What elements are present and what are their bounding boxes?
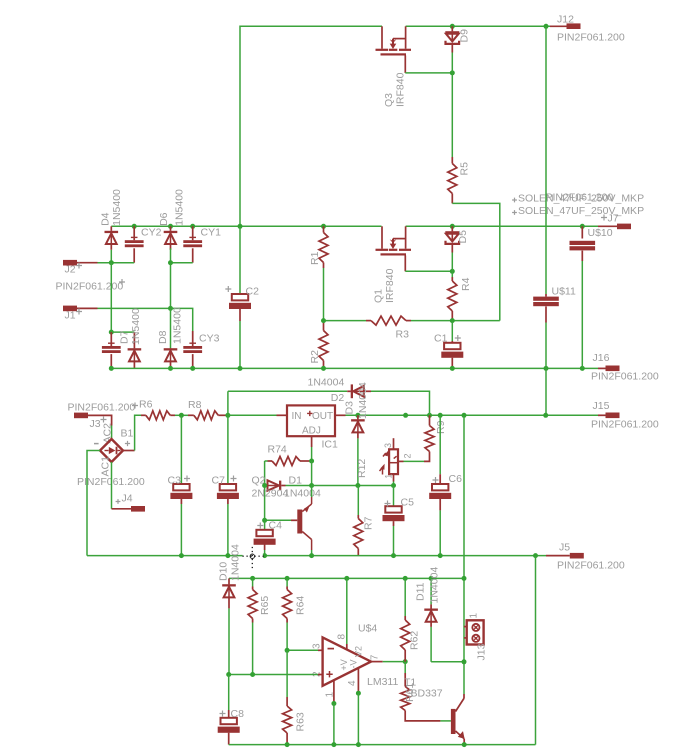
svg-text:J1: J1	[65, 310, 76, 322]
junction J2 branch / D7	[109, 330, 114, 335]
wire rail y=578.4	[229, 577, 464, 579]
svg-text:1N4004: 1N4004	[230, 544, 242, 581]
svg-text:7: 7	[370, 654, 381, 660]
wire x464 vertical	[463, 415, 465, 694]
svg-text:J12: J12	[557, 14, 574, 26]
resistor R6	[141, 414, 146, 416]
junction R8/C7/IC1-IN	[225, 413, 230, 418]
diode D10 1N4004	[228, 556, 230, 579]
wire to D7 anode	[111, 331, 134, 333]
wire J16 rail to J15 rail	[545, 368, 547, 415]
op-amp U$4 LM311	[323, 637, 371, 685]
wire J12 node down to U$11	[545, 26, 547, 294]
svg-text:R2: R2	[309, 350, 321, 364]
connector J5 pad	[570, 553, 584, 559]
junction rail-555 x440.2	[438, 553, 443, 558]
diode D3 1N4004	[357, 415, 359, 419]
capacitor U$10 SOLEN	[581, 226, 583, 238]
junction rail-555 x264.6	[262, 553, 267, 558]
capacitor C7	[227, 415, 229, 483]
junction rail-226 x192.7	[190, 224, 195, 229]
capacitor C6	[439, 415, 441, 474]
wire rail AC top right	[406, 225, 604, 227]
pin stub J7	[598, 225, 617, 227]
junction rail-226 x170.5	[168, 224, 173, 229]
wire D6-CY1 bottom tie	[170, 248, 172, 308]
voltage regulator IC1	[287, 405, 335, 436]
svg-text:PIN2F061.200: PIN2F061.200	[68, 402, 136, 414]
pin stub J15	[598, 414, 606, 416]
svg-text:PIN2F061.200: PIN2F061.200	[557, 32, 625, 44]
capacitor CY1	[192, 226, 194, 240]
svg-text:D10: D10	[218, 562, 230, 581]
transistor Q3 IRF840	[376, 26, 412, 73]
diode D7 1N5400	[133, 332, 135, 348]
junction pin7 / R62 / R61	[403, 659, 408, 664]
svg-text:1: 1	[325, 692, 336, 698]
junction top rail / D9	[450, 24, 455, 29]
junction rail-226 x323.5	[321, 224, 326, 229]
junction D6 / CY1	[168, 260, 173, 265]
svg-text:SOLEN_47UF_250V_MKP: SOLEN_47UF_250V_MKP	[518, 205, 644, 217]
junction R1/R2/mid-rail	[321, 318, 326, 323]
svg-text:OUT: OUT	[312, 411, 333, 422]
junction rail-368 x111.3	[109, 366, 114, 371]
capacitor C3	[180, 415, 182, 483]
junction rail-555 x311.6	[309, 553, 314, 558]
wire Q1 source to node	[405, 270, 452, 272]
wire J2 node down	[110, 263, 112, 332]
connector J7 pad	[617, 224, 631, 230]
junction rail-415 x545.7	[543, 413, 548, 418]
svg-text:J4: J4	[122, 493, 133, 505]
diode D4 1N5400	[110, 226, 112, 231]
svg-text:AC1: AC1	[100, 456, 112, 477]
diode D9 (zener)	[451, 26, 453, 31]
svg-text:1N5400: 1N5400	[173, 189, 185, 226]
svg-text:Q1: Q1	[373, 289, 385, 303]
svg-text:V2: V2	[354, 646, 364, 657]
svg-text:3: 3	[312, 643, 323, 649]
capacitor (x=111 bottom)	[110, 332, 112, 346]
svg-text:+V: +V	[339, 659, 349, 670]
svg-text:1: 1	[469, 613, 480, 619]
junction R65 / pin2 net	[250, 672, 255, 677]
junction rail-226 x134.2	[132, 224, 137, 229]
junction rail-744 x287.1	[285, 742, 290, 747]
svg-text:BD337: BD337	[411, 688, 443, 700]
svg-text:LM311: LM311	[367, 676, 398, 688]
connector J12 pad	[567, 23, 581, 29]
junction pin1 wire	[331, 701, 336, 706]
svg-text:C6: C6	[449, 473, 463, 485]
junction Q2 col / D1	[262, 483, 267, 488]
svg-text:ADJ: ADJ	[302, 426, 321, 437]
svg-text:D3: D3	[344, 401, 356, 415]
junction rail-368 x192.7	[190, 366, 195, 371]
svg-text:R12: R12	[356, 459, 368, 478]
svg-text:U$10: U$10	[588, 227, 613, 239]
junction rail-226 x452.3	[450, 224, 455, 229]
svg-text:C7: C7	[212, 475, 226, 487]
svg-text:R8: R8	[188, 399, 202, 411]
value labels SOLEN_47UF_250V_MKP (U$11/U$10) + PIN2F061.200 (J7) overlapping	[512, 198, 517, 203]
resistor R63	[286, 650, 288, 697]
svg-text:D5: D5	[457, 230, 469, 244]
svg-text:J15: J15	[593, 400, 610, 412]
svg-text:D2: D2	[331, 392, 345, 404]
wire Q3 source to node	[405, 72, 452, 74]
junction rail-555 x535.5	[533, 553, 538, 558]
junction rail-555 x393.5	[391, 553, 396, 558]
svg-text:R65: R65	[259, 596, 271, 615]
junction rail-555 x181.4	[179, 553, 184, 558]
svg-text:U$4: U$4	[358, 623, 377, 635]
junction top rail / J12 branch	[544, 24, 549, 29]
connector J16 pad	[606, 366, 620, 372]
pin stub IC1 IN	[277, 414, 288, 416]
resistor R5	[451, 73, 453, 157]
svg-text:CY3: CY3	[199, 333, 220, 345]
junction rail-578 x287.1	[285, 576, 290, 581]
svg-text:1N4004: 1N4004	[429, 567, 441, 604]
connector J15 pad	[606, 413, 620, 419]
svg-text:1N4004: 1N4004	[284, 488, 321, 500]
svg-text:IN: IN	[292, 411, 302, 422]
junction rail-368 x240	[238, 366, 243, 371]
svg-text:D4: D4	[99, 212, 111, 226]
svg-text:3: 3	[383, 443, 393, 448]
resistor R9	[429, 415, 431, 425]
resistor R3	[366, 320, 371, 322]
wire top rail right segment	[406, 25, 550, 27]
svg-text:-V: -V	[349, 660, 359, 669]
transistor T1 BD337	[451, 698, 465, 745]
svg-text:D6: D6	[158, 212, 170, 226]
wire rail to C2	[239, 226, 241, 294]
junction R4/C1/mid-rail	[450, 318, 455, 323]
bypass branch: C7 riser + diode D2 1N4004	[227, 391, 229, 415]
junction rail-744 x464.2	[462, 742, 467, 747]
svg-text:J5: J5	[559, 542, 570, 554]
transistor Q1 IRF840	[376, 226, 412, 271]
wire op-amp pin7 output	[371, 661, 383, 663]
svg-text:C8: C8	[231, 708, 245, 720]
junction rail-578 x405.2	[403, 576, 408, 581]
capacitor CY3	[192, 331, 194, 346]
svg-text:8: 8	[336, 634, 347, 640]
svg-text:D9: D9	[459, 29, 471, 43]
svg-text:J3: J3	[90, 418, 101, 430]
trimmer R13	[389, 449, 398, 474]
capacitor C1	[451, 321, 453, 341]
connector J4 pad	[131, 506, 145, 512]
junction J2 / D4	[109, 260, 114, 265]
junction rail-368 x323.5	[321, 366, 326, 371]
svg-text:IC1: IC1	[322, 439, 339, 451]
svg-text:U$11: U$11	[552, 286, 576, 298]
resistor R4	[451, 271, 453, 277]
svg-text:R64: R64	[295, 596, 307, 615]
wire J1 row to CY3	[171, 308, 193, 331]
svg-text:IRF840: IRF840	[384, 268, 396, 303]
svg-text:2: 2	[402, 453, 412, 458]
polarity + J7	[601, 215, 607, 221]
pin stub J12	[550, 25, 567, 27]
svg-text:J2: J2	[65, 264, 76, 276]
svg-text:R7: R7	[363, 516, 375, 530]
capacitor C5	[393, 486, 395, 506]
resistor R74	[265, 460, 268, 462]
svg-text:PIN2F061.200: PIN2F061.200	[591, 419, 659, 431]
junction D1 / Q2 emitter / net	[309, 483, 314, 488]
junction D11 / x464 vertical	[462, 659, 467, 664]
pin stub IC1 OUT	[335, 414, 346, 416]
svg-text:PIN2F061.200: PIN2F061.200	[591, 371, 659, 383]
resistor R65	[252, 578, 254, 586]
svg-text:C2: C2	[246, 286, 260, 298]
junction rail-368 x452.3	[450, 366, 455, 371]
junction rail-555 x227.9	[225, 553, 230, 558]
svg-text:B1: B1	[121, 428, 134, 440]
junction ADJ / R74	[309, 459, 314, 464]
diode D8 1N5400	[170, 308, 172, 348]
svg-text:C5: C5	[401, 497, 415, 509]
svg-text:CY2: CY2	[141, 227, 162, 239]
svg-text:R3: R3	[396, 329, 410, 341]
resistor R61	[404, 662, 406, 673]
svg-text:CY1: CY1	[201, 227, 222, 239]
junction D5 / R4 / Q1	[450, 269, 455, 274]
diode D11 1N4004	[430, 578, 432, 604]
pin stub J13-1	[464, 626, 467, 628]
svg-text:1N5400: 1N5400	[171, 307, 183, 344]
svg-text:1N5400: 1N5400	[130, 308, 142, 345]
junction rail-744 x358.4	[356, 742, 361, 747]
dotted origin crosshair	[243, 554, 264, 557]
junction rail-368 x546	[544, 366, 549, 371]
wire Q2 column	[264, 461, 266, 520]
connector J2	[63, 260, 77, 266]
junction rail-744 x333.9	[331, 742, 336, 747]
resistor R2	[323, 321, 325, 331]
svg-text:R74: R74	[268, 444, 287, 456]
junction rail-368 x170.5	[168, 366, 173, 371]
svg-text:R4: R4	[460, 277, 472, 291]
diode D5 (zener)	[451, 226, 453, 231]
junction rail-415 x405.6	[403, 413, 408, 418]
svg-text:2N2904: 2N2904	[252, 488, 289, 500]
junction D3-R12 / net	[355, 483, 360, 488]
svg-text:PIN2F061.200: PIN2F061.200	[56, 281, 124, 293]
wire rail y=555.6 (J5 net)	[87, 555, 546, 557]
wire R5 bottom to mid rail riser	[452, 203, 500, 320]
pin stub J16	[598, 367, 606, 369]
junction Q2 base / C4	[262, 518, 267, 523]
wire op-amp pin4	[357, 668, 359, 693]
wire rail AC top left	[111, 225, 381, 227]
svg-text:C1: C1	[434, 333, 448, 345]
wire adj net y=485.5	[312, 485, 394, 487]
capacitor CY2	[133, 226, 135, 240]
connector J1	[63, 306, 77, 312]
svg-text:R62: R62	[409, 631, 421, 650]
junction rail-415 x429.5	[427, 413, 432, 418]
junction trimmer pin1 / C5	[391, 483, 396, 488]
resistor R64	[286, 578, 288, 586]
junction rail-226 x582.3	[580, 224, 585, 229]
capacitor C8	[228, 675, 230, 711]
svg-text:4: 4	[347, 680, 358, 686]
svg-text:C4: C4	[269, 520, 283, 532]
capacitor C4	[264, 520, 266, 530]
svg-text:PIN2F061.200: PIN2F061.200	[546, 192, 614, 204]
svg-text:IRF840: IRF840	[395, 72, 407, 107]
resistor R8	[181, 414, 188, 416]
junction R6/R8/C3	[179, 413, 184, 418]
svg-text:D8: D8	[157, 330, 169, 344]
wire Q2 base	[265, 519, 291, 521]
svg-text:1N4004: 1N4004	[357, 382, 369, 419]
junction rail-578 x431.1	[429, 576, 434, 581]
transistor Q2 (2N2904)	[311, 486, 313, 498]
svg-text:C3: C3	[168, 475, 182, 487]
junction rail-578 x464	[462, 576, 467, 581]
bridge rectifier B1	[100, 439, 123, 462]
wire mid rail y=320.6	[324, 320, 367, 322]
svg-text:J13: J13	[476, 643, 488, 660]
wire C7 node to IC1 IN	[228, 414, 277, 416]
connector J3	[74, 413, 88, 419]
junction rail-578 x252.6	[250, 576, 255, 581]
connector J13	[467, 620, 484, 644]
junction pin4 wire	[356, 691, 361, 696]
junction rail-415 x440.2	[438, 413, 443, 418]
svg-text:1: 1	[383, 474, 393, 479]
resistor R1	[323, 226, 325, 232]
connector J4	[111, 462, 113, 509]
svg-text:R6: R6	[139, 399, 153, 411]
svg-text:1N4004: 1N4004	[308, 377, 345, 389]
svg-text:Q3: Q3	[383, 93, 395, 107]
svg-text:R63: R63	[295, 712, 307, 731]
diode D1 1N4004	[265, 485, 268, 487]
pin stub J5	[546, 555, 570, 557]
svg-text:D1: D1	[289, 475, 303, 487]
junction D10 col / pin2 net	[226, 672, 231, 677]
junction rail-578 x346.8	[344, 576, 349, 581]
junction rail-368 x582.3	[580, 366, 585, 371]
svg-text:R5: R5	[459, 162, 471, 176]
junction rail-226 x240	[238, 224, 243, 229]
junction rail-415 x464	[462, 413, 467, 418]
junction D9 bottom / Q3	[450, 70, 455, 75]
resistor R62	[404, 578, 406, 616]
wire B1 right up to R6	[123, 450, 135, 452]
junction rail-415 x357.9	[355, 413, 360, 418]
wire op-amp pin2	[229, 674, 318, 676]
pin stub J13-2	[464, 637, 467, 639]
diode D2 1N4004	[351, 384, 353, 398]
junction R64 / pin3 / R63	[285, 648, 290, 653]
svg-text:D7: D7	[119, 330, 131, 344]
svg-text:J16: J16	[593, 352, 610, 364]
svg-text:PIN2F061.200: PIN2F061.200	[557, 560, 625, 572]
wire op-amp pin8	[346, 578, 348, 644]
resistor R7	[357, 486, 359, 516]
wire op-amp pin1	[333, 680, 335, 703]
wire bottom rail y=744.6	[229, 744, 536, 746]
wire OUT / J15 rail y=415.3	[346, 414, 599, 416]
svg-text:D11: D11	[415, 582, 427, 601]
svg-text:R1: R1	[309, 251, 321, 265]
wire B1 left to lower rail	[87, 451, 100, 556]
wire top rail left segment	[240, 26, 382, 226]
pin stub IC1 ADJ	[311, 436, 313, 447]
junction J1 / D6 / D8	[168, 306, 173, 311]
svg-text:1N5400: 1N5400	[111, 189, 123, 226]
wire ground rail y=368.4	[111, 367, 598, 369]
diode D6 1N5400	[170, 226, 172, 231]
wire op-amp pin3	[287, 649, 318, 651]
svg-text:R9: R9	[435, 420, 447, 434]
wire right edge vertical x=535.5	[535, 556, 537, 745]
